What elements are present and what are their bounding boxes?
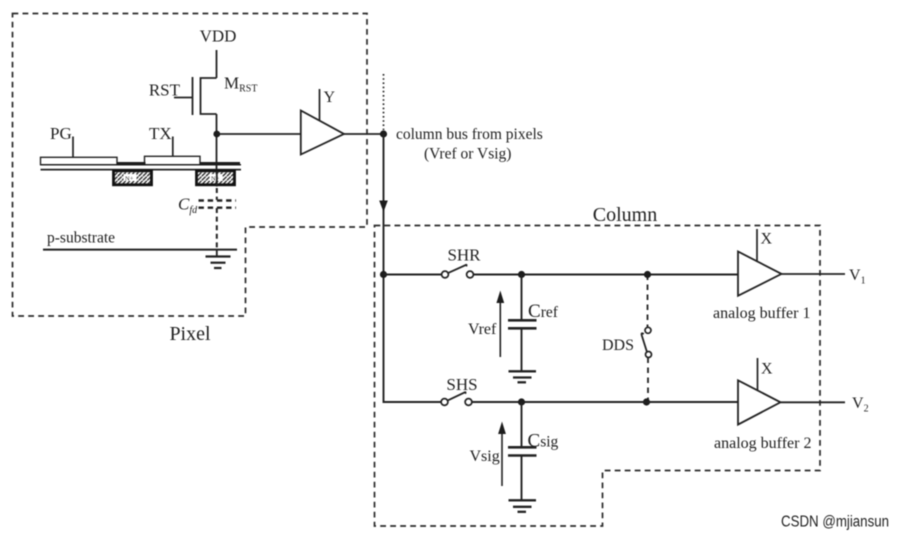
oxide surface line (41, 164, 242, 166)
wire column bus dotted upper segment (383, 74, 385, 130)
VDD net label (200, 27, 237, 46)
silicon surface line (41, 169, 242, 171)
op-amp buffer Y (pixel source follower) (301, 111, 344, 155)
wire PG gate tick (72, 137, 74, 158)
oxide thick segment right of TX (200, 162, 241, 165)
wire X select line buffer2 (757, 358, 759, 390)
svg-text:TX: TX (149, 124, 172, 143)
op-amp analog buffer 1 (738, 252, 782, 296)
Vref arrow (496, 291, 504, 358)
svg-text:SHS: SHS (446, 375, 477, 394)
N+ diffusion left (114, 171, 152, 185)
capacitor Csig (508, 402, 537, 500)
node FD junction dot (213, 131, 220, 138)
label column bus from pixels (396, 126, 543, 163)
transistor M_RST (193, 77, 217, 115)
wire RST gate lead (174, 97, 193, 99)
svg-text:Cref: Cref (528, 301, 559, 322)
label PG (50, 124, 72, 143)
label analog buffer 1 (713, 305, 810, 322)
label Cref (528, 301, 559, 322)
svg-text:VDD: VDD (200, 27, 237, 46)
svg-text:Vref: Vref (468, 321, 497, 338)
wire X select line buffer1 (756, 229, 758, 262)
wire DDS dashed upper (647, 275, 649, 328)
wire buffer1 output to V1 (782, 273, 846, 275)
svg-text:Cfd: Cfd (178, 195, 198, 217)
node Cref top dot (518, 271, 525, 278)
svg-text:V2: V2 (852, 395, 869, 415)
label X buffer1 (761, 231, 773, 248)
label Column (593, 204, 657, 226)
switch SHS (441, 392, 472, 405)
wire VDD to transistor drain (216, 50, 218, 78)
node column bus junction dot (380, 130, 387, 137)
transfer gate TX electrode (145, 156, 201, 164)
svg-text:RST: RST (149, 81, 181, 100)
p-substrate surface line (43, 249, 237, 251)
svg-text:CSDN @mjiansun: CSDN @mjiansun (781, 514, 889, 531)
node DDS bottom dot (643, 398, 650, 405)
label X buffer2 (761, 361, 773, 378)
capacitor C_fd dashed (199, 171, 237, 250)
label Vsig (470, 448, 500, 465)
Column dashed boundary box (375, 226, 821, 527)
label Csig (528, 431, 559, 452)
label Pixel (169, 323, 211, 345)
svg-text:X: X (761, 231, 773, 248)
svg-text:DDS: DDS (602, 337, 634, 354)
wire column bus with arrow into column box (379, 134, 388, 275)
svg-text:Y: Y (324, 89, 336, 106)
svg-text:analog buffer 1: analog buffer 1 (713, 305, 810, 322)
label RST (149, 81, 181, 100)
ground (Csig) (509, 500, 537, 512)
svg-text:N+: N+ (125, 176, 134, 183)
label V1 (849, 267, 866, 287)
svg-text:Csig: Csig (528, 431, 559, 452)
wire FD node to buffer input (217, 133, 301, 135)
node Csig top dot (518, 398, 525, 405)
ground (pixel substrate) (206, 250, 231, 268)
ground (Cref) (509, 371, 537, 382)
label p-substrate (47, 230, 115, 247)
label analog buffer 2 (714, 435, 811, 452)
wire transistor source down to FD node (216, 114, 218, 183)
svg-text:Vsig: Vsig (470, 448, 500, 465)
N+ diffusion right (floating diffusion) (197, 171, 235, 185)
label Y (324, 89, 336, 106)
wire buffer output to column bus (344, 133, 384, 135)
label Vref (468, 321, 497, 338)
svg-text:column bus from pixels: column bus from pixels (396, 126, 543, 143)
watermark CSDN (781, 514, 889, 531)
op-amp analog buffer 2 (738, 380, 781, 424)
capacitor Cref (508, 275, 537, 372)
wire TX gate tick (172, 137, 174, 157)
svg-text:PG: PG (50, 124, 72, 143)
label C_fd (178, 195, 198, 217)
wire Y select line (319, 89, 321, 121)
wire buffer2 output to V2 (781, 401, 846, 403)
label TX (149, 124, 172, 143)
wire bottom row SHS to buffer2 (472, 401, 738, 403)
label M_RST (224, 74, 257, 95)
label V2 (852, 395, 869, 415)
svg-text:N+: N+ (211, 176, 220, 183)
switch DDS (642, 327, 652, 357)
oxide thick segment between gates (117, 162, 146, 165)
node DDS top dot (644, 271, 651, 278)
wire DDS dashed lower (647, 358, 649, 403)
switch SHR (442, 265, 474, 278)
node top row left dot (380, 271, 387, 278)
svg-text:(Vref or Vsig): (Vref or Vsig) (424, 146, 511, 163)
svg-text:MRST: MRST (224, 74, 257, 95)
wire top row SHR to buffer1 (474, 274, 739, 276)
svg-text:analog buffer 2: analog buffer 2 (714, 435, 811, 452)
label DDS (602, 337, 634, 354)
svg-text:Pixel: Pixel (169, 323, 211, 345)
label SHR (447, 246, 481, 265)
label SHS (446, 375, 477, 394)
svg-text:p-substrate: p-substrate (47, 230, 115, 247)
Vsig arrow (498, 422, 506, 487)
svg-text:X: X (761, 361, 773, 378)
wire top row to SHR switch (384, 274, 442, 276)
photogate PG electrode (41, 157, 118, 164)
svg-text:V1: V1 (849, 267, 866, 287)
svg-text:Column: Column (593, 204, 657, 226)
svg-text:SHR: SHR (447, 246, 481, 265)
Pixel dashed boundary box (13, 14, 368, 317)
wire left column bus vertical (384, 275, 442, 403)
